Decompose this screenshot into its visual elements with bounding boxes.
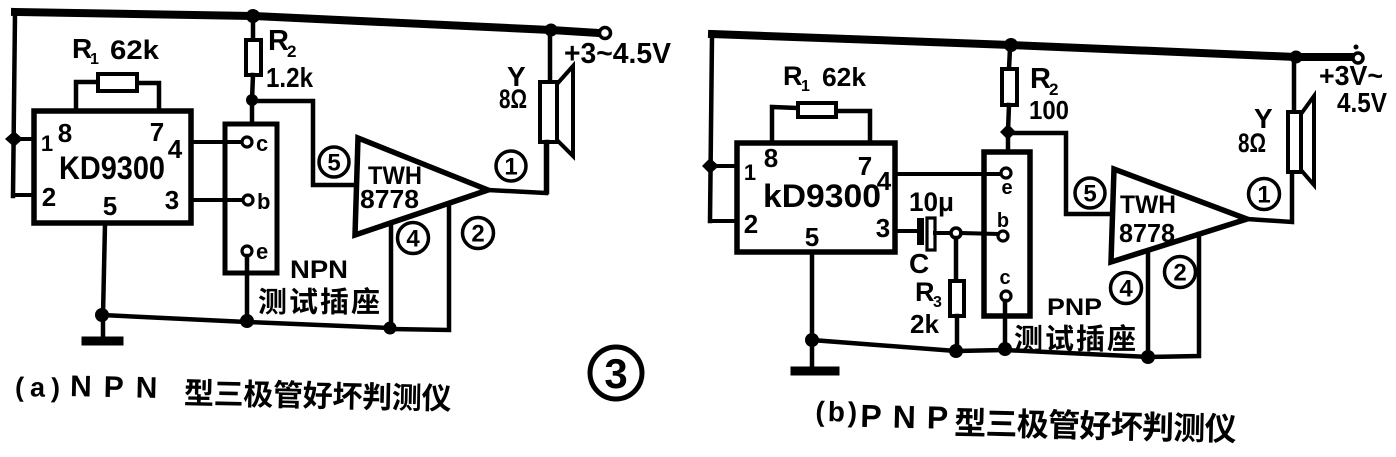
socket contact c (b) [999,267,1011,301]
pin number 8 (a) [58,118,72,148]
svg-text:NPN: NPN [70,370,170,405]
wire: pin4 to ground bus (b) [1146,252,1151,355]
svg-text:PNP: PNP [860,398,960,436]
svg-text:PNP: PNP [1047,294,1102,321]
battery terminal +3~4.5V (a) [564,28,672,71]
svg-text:1: 1 [744,160,756,185]
wire: junction to socket top (b) [1006,133,1011,154]
svg-text:4.5V: 4.5V [1337,87,1387,118]
wire: +V top bus (a) [15,12,599,33]
amplifier U2 TWH8778 (a) [355,138,488,235]
wire: pin2 stub (a) [13,193,36,197]
svg-text:8Ω: 8Ω [1238,128,1266,158]
svg-text:8778: 8778 [1119,218,1175,248]
node: pin1 junction arrow (a) [5,131,35,147]
svg-text:8778: 8778 [360,184,419,214]
svg-text:1: 1 [504,154,517,181]
svg-text:2: 2 [287,42,296,61]
battery terminal +3V~4.5V (b) [1319,45,1387,119]
wire: pin4 to contact e (b) [895,172,1000,176]
svg-text:e: e [256,239,268,264]
resistor R1 62k (b) [772,61,870,145]
svg-text:62k: 62k [110,35,160,65]
socket contact b (a) [243,189,270,214]
svg-text:5: 5 [103,191,117,221]
svg-text:R: R [1030,63,1051,95]
wire: ground bus (a) [102,315,390,328]
pin number 3 (a) [165,185,179,215]
socket contact b (b) [997,210,1009,241]
svg-text:C: C [909,248,929,279]
svg-text:8Ω: 8Ω [499,84,527,114]
node: R2 bottom junction (a) [246,94,258,106]
node: R2 bottom junction (b) [1000,124,1016,140]
svg-text:TWH: TWH [1120,191,1176,219]
svg-text:+3~4.5V: +3~4.5V [564,38,672,70]
pin number 3 (b) [876,213,890,243]
pin label 1 circled (b) [1249,179,1280,210]
wire: pin2 to ground bus (b) [1150,234,1199,357]
pin number 1 (a) [41,131,53,156]
node: ground junction (a) [95,308,109,322]
svg-text:NPN: NPN [290,256,348,284]
svg-text:R: R [915,277,935,307]
wire: +V top bus (b) [712,34,1353,57]
amplifier U2 TWH8778 (b) [1111,169,1247,262]
node: capacitor junction (b) [951,228,997,238]
IC U1 kD9300 (b) [737,143,895,252]
svg-text:c: c [999,267,1010,289]
svg-text:R: R [268,25,289,57]
test socket box PNP (b) [984,152,1030,316]
svg-text:1: 1 [1257,182,1270,209]
wire: pin3 to contact b (a) [191,198,242,202]
pin number 8 (b) [764,143,778,173]
resistor R2 1.2k (a) [246,18,313,100]
svg-text:KD9300: KD9300 [59,150,165,186]
resistor R2 100 (b) [1002,48,1069,131]
wire: contact c to ground bus (b) [1003,301,1008,348]
pin number 7 (b) [858,151,872,181]
svg-text:3: 3 [165,185,179,215]
wire: amplifier output to speaker (b) [1247,174,1292,222]
svg-text:2: 2 [42,182,56,212]
wire: junction to socket top (a) [250,100,255,126]
label 测试插座 (b) [1015,324,1135,352]
svg-text:R: R [783,61,803,91]
svg-text:e: e [1001,177,1012,199]
wire: pin5 to ground (b) [810,252,815,340]
svg-text:2: 2 [744,209,758,239]
wire: left rail (a) [13,14,15,196]
svg-text:b: b [997,210,1009,232]
svg-text:1: 1 [90,51,99,68]
svg-text:3: 3 [604,350,627,397]
svg-text:4: 4 [1119,276,1133,303]
node: pin1 junction arrow (b) [702,158,738,174]
wire: junction to amplifier input (b) [1009,133,1110,214]
test socket box NPN (a) [225,124,277,273]
pin label 5 circled (b) [1075,178,1105,208]
wire: contact e to ground bus (a) [245,256,250,320]
pin label 4 circled (a) [398,223,429,254]
ground symbol (b) [795,340,835,371]
wire: ground bus (b) [812,340,1148,357]
svg-text:(a): (a) [15,372,67,403]
resistor R3 2k (b) [910,238,964,350]
pin label 4 circled (b) [1111,273,1142,304]
resistor R1 62k (a) [72,33,160,112]
svg-text:1.2k: 1.2k [266,62,313,93]
node: R2 top junction (b) [1004,38,1018,52]
svg-text:b: b [257,189,270,214]
pin number 2 (a) [42,182,56,212]
ground symbol (a) [86,315,119,341]
label NPN (a) [290,256,348,284]
node: contact c bottom junction (b) [998,342,1012,356]
pin number 1 (b) [744,160,756,185]
pin label 1 circled (a) [496,151,526,181]
label 测试插座 (a) [259,287,379,315]
node: R2 top junction (a) [246,9,260,23]
capacitor C 10u (b) [895,187,954,279]
speaker Y 8ohm (b) [1238,58,1314,185]
svg-text:1: 1 [801,78,810,95]
svg-text:c: c [256,131,268,156]
pin label 2 circled (a) [463,218,494,249]
node: R3 bottom junction (b) [949,344,963,358]
IC U1 KD9300 (a) [34,111,191,223]
caption (a) NPN tester [15,369,452,412]
svg-text:5: 5 [1083,181,1096,208]
wire: pin5 to ground (a) [103,224,105,315]
node: contact e junction (a) [240,314,254,328]
svg-text:10μ: 10μ [909,187,954,217]
wire: left rail (b) [710,36,712,221]
pin number 5 (b) [805,222,819,252]
svg-text:8: 8 [58,118,72,148]
wire: pin2 to ground bus (a) [393,204,449,330]
svg-text:5: 5 [327,150,340,177]
wire: amplifier output to speaker (a) [488,144,546,193]
svg-text:2k: 2k [910,309,940,339]
wire: pin2 stub (b) [710,219,738,223]
caption (b) PNP tester [815,396,1236,444]
pin number 2 (b) [744,209,758,239]
svg-text:2: 2 [471,221,484,248]
pin label 2 circled (b) [1165,257,1196,288]
wire: pin4 to ground bus (a) [389,224,394,326]
svg-text:7: 7 [858,151,872,181]
socket contact c (a) [242,131,268,156]
svg-text:kD9300: kD9300 [763,178,881,214]
svg-text:62k: 62k [822,62,867,92]
node: pin4 ground junction (a) [384,322,397,335]
node: speaker top junction (a) [545,24,558,37]
svg-text:8: 8 [764,143,778,173]
wire: junction to amplifier input (a) [252,101,356,185]
node: ground junction (b) [805,333,819,347]
pin label 5 circled (a) [319,147,349,177]
pin number 5 (a) [103,191,117,221]
pin number 4 (a) [168,134,183,164]
speaker Y 8ohm (a) [499,32,573,192]
svg-text:4: 4 [168,134,183,164]
socket contact e (a) [242,239,268,264]
svg-text:2: 2 [1173,260,1186,287]
label PNP (b) [1047,294,1102,321]
pin number 7 (a) [150,117,164,147]
wire: pin4 to contact c (a) [191,140,241,144]
svg-text:7: 7 [150,117,164,147]
socket contact e (b) [1001,168,1013,199]
pin number 4 (b) [877,166,892,196]
figure number 3 [590,347,642,399]
svg-text:(b): (b) [815,396,860,428]
svg-text:100: 100 [1029,95,1069,125]
svg-text:5: 5 [805,222,819,252]
node: pin4 ground junction (b) [1141,350,1155,364]
node: speaker top junction (b) [1290,51,1303,64]
svg-text:4: 4 [877,166,892,196]
svg-text:3: 3 [876,213,890,243]
svg-text:4: 4 [406,226,420,253]
svg-text:1: 1 [41,131,53,156]
